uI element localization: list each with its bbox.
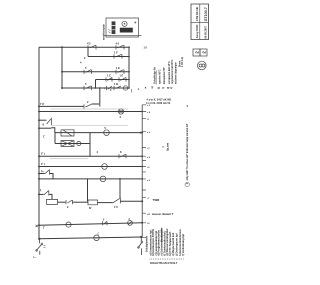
svg-text:1 E: 1 E [116, 66, 120, 70]
plug pole left PL1 [36, 239, 41, 255]
wire stub R12 [39, 173, 45, 175]
svg-text:klarspuelen 55°: klarspuelen 55° [164, 67, 166, 84]
switch S10 [119, 154, 126, 158]
node B1 [141, 111, 143, 113]
wire right bus V142 [141, 105, 143, 237]
svg-text:c 9: c 9 [147, 180, 151, 182]
node J5b [95, 87, 97, 89]
relay box X2 [61, 141, 74, 147]
svg-text:c): c) [163, 87, 165, 89]
wire faint R8b [52, 125, 128, 127]
wire inner bus V62 [61, 47, 63, 88]
wire box row b [73, 201, 89, 203]
svg-text:Ț: Ț [43, 226, 45, 230]
wire inner drop V88 [87, 47, 89, 56]
wire rung R4 [96, 79, 130, 81]
svg-text:ξ: ξ [40, 188, 42, 192]
wire rung R11 [39, 166, 142, 168]
svg-text:anschlussplan: anschlussplan [104, 23, 106, 40]
svg-text:c11: c11 [147, 214, 151, 216]
valve Y1 [66, 222, 71, 227]
wire rung R8 [55, 132, 142, 134]
parts list dots row [150, 258, 184, 261]
lamp Y2 [128, 221, 133, 226]
inset block [120, 28, 133, 33]
contact K1 stub lower [39, 127, 51, 129]
switch S3a [84, 70, 92, 74]
node J13 [38, 178, 40, 180]
node J99 [99, 87, 101, 89]
svg-text:2: 2 [87, 100, 89, 104]
svg-text:4 x tn K. 3417 nK 861: 4 x tn K. 3417 nK 861 [147, 98, 172, 101]
svg-text:ζ: ζ [98, 232, 100, 236]
svg-text:c 2: c 2 [147, 105, 151, 107]
wire rung R13 [39, 178, 142, 180]
motor M2 [94, 235, 100, 241]
wire rung R9 [55, 143, 90, 145]
svg-text:t 5: t 5 [147, 166, 150, 169]
wire rung R6 [39, 104, 99, 106]
inset circle [122, 21, 127, 26]
wire top rung R1 [39, 46, 129, 48]
svg-text:t 9: t 9 [147, 222, 150, 225]
wire rung R5 [62, 87, 129, 89]
node J17a [38, 238, 40, 240]
svg-text:only with "no rinse aid" indic: only with "no rinse aid" indicator lamp … [186, 123, 189, 180]
pump P2 [100, 176, 106, 182]
svg-text:L~: L~ [34, 256, 38, 259]
node J15b [141, 222, 143, 224]
svg-text:B: B [145, 88, 147, 90]
inset through line [104, 34, 142, 36]
svg-text:2˚ ț: 2˚ ț [41, 151, 45, 156]
node J10 [38, 155, 40, 157]
svg-text:4 0: 4 0 [116, 42, 120, 46]
svg-text:Schaltplanteile: Schaltplanteile [146, 235, 149, 252]
lamp B1 [123, 86, 127, 90]
mark xi1 [44, 246, 46, 248]
terminal pins on right bus [142, 105, 146, 238]
motor M1 [104, 130, 110, 136]
wire rung R2 [88, 56, 129, 58]
node J129d [128, 79, 130, 81]
svg-text:5̅: 5̅ [85, 66, 87, 70]
pin labels column [147, 105, 151, 225]
wire box row [58, 201, 66, 203]
switch S5b [107, 86, 122, 90]
resistor RX1 [47, 199, 58, 204]
wire drop V87 [87, 179, 89, 202]
node J17b [140, 236, 142, 238]
svg-text:2: 2 [67, 205, 69, 209]
svg-text:a): a) [152, 86, 154, 88]
wire X2 to lamp [74, 143, 77, 145]
svg-text:d): d) [168, 87, 170, 89]
svg-text:1 F: 1 F [114, 51, 118, 55]
wire faint R10b [50, 158, 88, 160]
wire to bus [120, 200, 142, 202]
svg-text:TWR: TWR [153, 198, 161, 202]
switch S12 [45, 169, 50, 174]
svg-text:5: 5 [85, 82, 87, 86]
legend underline [156, 71, 158, 85]
switch S1b [116, 45, 124, 49]
svg-text:Sp.arm: Sp.arm [166, 143, 169, 151]
inset connector box [104, 18, 142, 37]
svg-text:8: 8 [43, 123, 45, 127]
node K1a [38, 119, 40, 121]
wire step V95 [95, 80, 97, 89]
svg-text:c 4: c 4 [147, 111, 151, 114]
inset plus [134, 21, 136, 23]
wire rung R3 [62, 71, 129, 73]
node J129a [128, 46, 130, 48]
pump P1 [102, 164, 108, 170]
svg-text:Schaltfolge Nr: Schaltfolge Nr [154, 67, 157, 84]
svg-text:17B 84 1B: 17B 84 1B [195, 7, 199, 21]
svg-text:GT100-7: GT100-7 [204, 7, 208, 21]
right note C circle [185, 182, 189, 186]
relay box X1 [61, 130, 74, 136]
svg-text:c 6: c 6 [147, 132, 151, 134]
node J3 [61, 71, 63, 73]
svg-text:e): e) [171, 87, 173, 89]
wire rung R10 [39, 155, 142, 157]
svg-text:(: ( [131, 89, 133, 93]
wire bottom rung R16 [39, 237, 141, 239]
svg-text:2˚ ț: 2˚ ț [41, 161, 45, 166]
svg-text:1 C: 1 C [107, 74, 111, 78]
svg-text:wasser. Bauart T: wasser. Bauart T [151, 212, 174, 216]
inset tick [108, 30, 110, 33]
svg-text:4: 4 [120, 115, 122, 119]
wire rung R15 [39, 223, 142, 226]
switch S14 [44, 190, 49, 195]
svg-text:1˚0: 1˚0 [114, 204, 118, 209]
node B2 [141, 132, 143, 134]
wire S12 out [50, 174, 54, 179]
title block [191, 4, 209, 40]
svg-text:2: 2 [202, 51, 207, 54]
switch S1a [88, 45, 96, 49]
svg-text:7̅ 9˚: 7̅ 9˚ [40, 101, 45, 106]
node J8 [140, 132, 142, 134]
node J15a [38, 224, 40, 226]
wire stub R14 [39, 193, 44, 195]
svg-text:1 B: 1 B [114, 82, 118, 86]
svg-text:ee: ee [162, 147, 165, 149]
wire riser V99 [99, 88, 101, 106]
switch S2 [114, 54, 122, 58]
svg-text:t 3: t 3 [147, 147, 150, 150]
svg-text:4: 4 [97, 150, 99, 154]
svg-text:4̊ 2: 4̊ 2 [87, 41, 91, 46]
mark cross X15 [36, 225, 38, 227]
svg-text:1 Ė: 1 Ė [120, 75, 124, 78]
wire left bus L1 [38, 47, 40, 239]
svg-text:1 OF 2·1ț: 1 OF 2·1ț [181, 57, 184, 67]
switch S3b [116, 70, 124, 74]
node J11 [38, 166, 40, 168]
svg-text:ț+-: ț+- [41, 169, 44, 173]
lamp X2b [77, 141, 81, 145]
node J13b [119, 178, 121, 180]
switch S16 blade [113, 198, 121, 204]
svg-text:c 8: c 8 [147, 157, 151, 159]
svg-text:vorspuelen kalt 45°C: vorspuelen kalt 45°C [168, 61, 171, 84]
switch S15 [66, 200, 73, 204]
svg-text:l) Verdrahtung kpl: l) Verdrahtung kpl [181, 234, 185, 256]
node B3 [141, 155, 143, 157]
node B4 [141, 166, 143, 168]
node J7 [38, 111, 40, 113]
wire S14 out [49, 194, 52, 199]
resistor RX2 NTC [88, 200, 98, 205]
svg-text:2: 2 [84, 56, 86, 60]
sheet squares [193, 49, 207, 56]
switch S17 [103, 221, 108, 225]
svg-text:Assy KDK: Assy KDK [195, 24, 199, 39]
node B5 [141, 178, 143, 180]
wire ladder right bus V129 [128, 47, 130, 87]
heater H1 [118, 109, 123, 114]
svg-text:4: 4 [80, 61, 82, 65]
plug contact circles right [138, 241, 143, 248]
wire link V55 [54, 133, 56, 144]
svg-text:b): b) [159, 87, 161, 89]
switch S5a [84, 86, 92, 90]
svg-text:8: 8 [120, 150, 122, 154]
node J1 [61, 46, 63, 48]
wire box row c [98, 202, 113, 204]
contact K1 blade [47, 118, 52, 125]
node J129b [128, 56, 130, 58]
plug contact circles [36, 243, 43, 251]
svg-text:2: 2 [195, 51, 200, 54]
svg-text:1 0: 1 0 [144, 46, 148, 49]
node J14 [38, 193, 40, 195]
wire link V90 [89, 133, 91, 157]
mark plus b [110, 89, 112, 91]
switch S4 [106, 77, 126, 81]
node K1b [38, 127, 40, 129]
node J129c [128, 71, 130, 73]
svg-text:2: 2 [103, 219, 105, 222]
svg-text:Sheet: Sheet [178, 61, 181, 67]
node J6 [38, 105, 40, 107]
wire K1 out elbow [51, 128, 54, 133]
plug pole right PL2 [138, 237, 142, 255]
svg-text:spuelen 65°C: spuelen 65°C [160, 69, 162, 84]
svg-text:SCHALTPLAN GT100-7: SCHALTPLAN GT100-7 [150, 262, 178, 265]
connector bar [112, 21, 116, 34]
wire faint pair R7b [50, 108, 128, 110]
parts list [148, 228, 185, 256]
svg-text:4 x tri N. 2183 mA 54: 4 x tri N. 2183 mA 54 [146, 102, 171, 105]
logo [198, 61, 207, 70]
contact K1 stub upper [39, 119, 46, 121]
svg-text:3: 3 [187, 105, 189, 108]
node J129e [128, 87, 130, 89]
svg-text:trocknen abpumpen: trocknen abpumpen [175, 61, 178, 84]
wire long rung R7 [39, 111, 142, 113]
svg-text:t 7: t 7 [147, 197, 150, 200]
svg-text:1˚: 1˚ [43, 134, 45, 139]
mark plus a [104, 87, 106, 89]
node J16 [141, 200, 143, 202]
switch S6 [84, 104, 92, 108]
node J5 [61, 87, 63, 89]
svg-text:06-08.2007: 06-08.2007 [204, 25, 207, 38]
wire riser V120 [119, 179, 121, 198]
svg-text:regenerieren kalt 35°C: regenerieren kalt 35°C [171, 59, 174, 84]
svg-text:1.: 1. [138, 88, 140, 91]
svg-text:N˜: N˜ [89, 206, 92, 210]
svg-text:t 1: t 1 [147, 118, 150, 121]
node J12 [38, 173, 40, 175]
